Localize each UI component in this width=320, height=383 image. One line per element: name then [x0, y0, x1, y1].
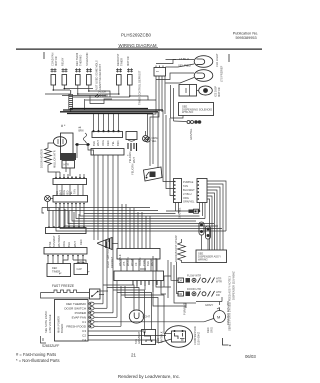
- heater box 2: [62, 161, 75, 169]
- terminal board TB1: [92, 132, 123, 138]
- svg-text:MULLION HTR: MULLION HTR: [53, 150, 57, 168]
- svg-text:SOLENOID: SOLENOID: [85, 52, 89, 66]
- strip D bottom dots: [47, 255, 84, 257]
- fast freeze lamp row: [41, 290, 90, 298]
- relay K1 coil: [51, 68, 68, 72]
- wires from band down to terminal board: [94, 114, 119, 132]
- tick right: [228, 54, 230, 62]
- band corners to the right: [148, 108, 174, 196]
- corner mark bottom right: [223, 338, 229, 345]
- fuse F1 vertical: [69, 90, 73, 112]
- right strip R connector: [197, 179, 207, 203]
- svg-text:LTS FRZ/REF: LTS FRZ/REF: [220, 65, 224, 82]
- heater rows left wires: [153, 256, 186, 306]
- svg-text:DOOR HTR: DOOR HTR: [187, 287, 201, 291]
- svg-text:JT5: JT5: [122, 261, 126, 266]
- svg-text:DEF: DEF: [52, 266, 58, 270]
- svg-text:TAN: TAN: [73, 189, 77, 194]
- svg-text:DEF THERMO: DEF THERMO: [66, 302, 86, 306]
- svg-text:BLU/WHT: BLU/WHT: [183, 188, 195, 192]
- svg-text:CAP: CAP: [77, 267, 83, 271]
- svg-text:WHT: WHT: [132, 157, 136, 163]
- svg-text:EVAP FAN: EVAP FAN: [72, 316, 86, 320]
- svg-text:YL/D: YL/D: [142, 260, 146, 266]
- door heater zigzag: [40, 147, 57, 169]
- svg-text:C4: C4: [82, 338, 86, 342]
- svg-text:BLU: BLU: [67, 242, 71, 247]
- board bottom bracket: [41, 336, 47, 343]
- svg-text:TAN/WHT: TAN/WHT: [52, 235, 56, 247]
- wires left of ice box: [171, 85, 187, 122]
- svg-text:DEF TERM: DEF TERM: [75, 53, 79, 66]
- svg-text:YEL: YEL: [111, 141, 115, 146]
- svg-text:WHT: WHT: [150, 260, 154, 266]
- buzzer: [143, 131, 149, 142]
- svg-text:# *: # *: [61, 124, 66, 128]
- svg-text:21: 21: [131, 353, 137, 358]
- lamp symbol left of strip B: [45, 196, 54, 206]
- svg-text:SEE NOTE 24VDC: SEE NOTE 24VDC: [44, 311, 48, 333]
- svg-text:115V 60HZ: 115V 60HZ: [197, 332, 201, 345]
- svg-text:COND FAN: COND FAN: [51, 52, 55, 66]
- svg-text:WHT: WHT: [96, 140, 100, 146]
- strip L wire labels: [183, 180, 195, 204]
- svg-text:RELAY: RELAY: [61, 57, 65, 66]
- relay K1 labels: [51, 52, 65, 66]
- plug P1 triangle: [98, 238, 119, 250]
- connector J1 top middle: [154, 66, 166, 77]
- interconnect A-B: [57, 185, 83, 196]
- svg-text:COMPRESSOR: COMPRESSOR: [193, 326, 197, 345]
- relay K1 contacts: [51, 75, 56, 86]
- svg-text:BLK: BLK: [146, 261, 150, 266]
- relay K3 contacts: [117, 75, 122, 86]
- svg-text:YEL/GRN: YEL/GRN: [131, 163, 135, 175]
- svg-text:MOTOR: MOTOR: [217, 87, 221, 97]
- svg-text:LT BLU: LT BLU: [179, 57, 189, 61]
- light L1 freezer: [194, 56, 213, 68]
- heater row 1: [178, 274, 222, 284]
- svg-text:5995389953: 5995389953: [235, 36, 256, 40]
- svg-text:Rendered by LeadVenture, Inc.: Rendered by LeadVenture, Inc.: [118, 374, 180, 379]
- strip bottom stubs: [176, 203, 206, 219]
- board edge connectors: [89, 302, 98, 328]
- relay K3 labels: [116, 53, 130, 66]
- wires into dispenser box: [202, 235, 209, 250]
- svg-text:0-15OK: 0-15OK: [98, 91, 107, 94]
- fuse oval 1: [199, 222, 204, 235]
- svg-text:S2653ZUFF: S2653ZUFF: [42, 344, 59, 348]
- mullion heater dark box: [60, 153, 76, 160]
- wires below M2 comb: [137, 286, 166, 294]
- svg-text:GRN/YEL: GRN/YEL: [178, 207, 182, 219]
- svg-text:WHT/BLK: WHT/BLK: [118, 254, 122, 266]
- strip B connector: [53, 196, 88, 203]
- capacitor box: [74, 262, 88, 275]
- svg-text:C3: C3: [134, 262, 138, 266]
- connector 3-pin: [187, 120, 201, 124]
- svg-text:DOOR SWITCH: DOOR SWITCH: [64, 307, 86, 311]
- M1 to M2 verticals: [121, 259, 157, 271]
- pin marks under small box: [128, 151, 136, 163]
- wires strip D to boxes: [48, 256, 86, 264]
- strip C labels below: [48, 235, 83, 247]
- compensator zigzag: [178, 239, 197, 263]
- svg-text:ORG: ORG: [62, 241, 66, 247]
- svg-text:ADAPTIVE DEFROST: ADAPTIVE DEFROST: [98, 64, 102, 90]
- svg-text:DOOR HEATER: DOOR HEATER: [40, 149, 44, 168]
- svg-text:# = Fast-moving Parts: # = Fast-moving Parts: [16, 352, 56, 357]
- svg-text:* = Non-Illustrated Parts: * = Non-Illustrated Parts: [16, 358, 60, 363]
- ice dispensing solenoid box: [179, 103, 214, 116]
- svg-text:ORG: ORG: [210, 327, 214, 333]
- svg-text:LIGHT: LIGHT: [143, 315, 151, 319]
- svg-text:BRN: BRN: [116, 140, 120, 146]
- svg-text:BOARD: BOARD: [60, 324, 64, 333]
- verticals dropping to strip C: [49, 208, 84, 228]
- strip A top wires and dots: [56, 172, 84, 179]
- mesh crossing verticals mid: [94, 168, 150, 249]
- svg-text:YEL/GRN: YEL/GRN: [128, 151, 132, 163]
- svg-text:BRN: BRN: [79, 130, 84, 132]
- relay pins hatched: [128, 143, 137, 151]
- junction wires under relays: [45, 89, 156, 101]
- svg-text:MOTOR: MOTOR: [126, 56, 130, 66]
- mid connector box M2: [114, 269, 164, 281]
- svg-text:FAST FREEZE: FAST FREEZE: [52, 284, 75, 288]
- svg-text:ORG: ORG: [101, 140, 105, 146]
- svg-text:#*: #*: [87, 270, 89, 274]
- thick wire band: [60, 109, 163, 114]
- bottom right box outline: [186, 297, 222, 308]
- TB2 pins down: [94, 155, 118, 188]
- defrost relay small box: [126, 132, 137, 142]
- svg-text:WIRING DIAGRAM: WIRING DIAGRAM: [118, 43, 156, 48]
- light switch symbol mid: [131, 163, 163, 181]
- condenser fan motor box: [61, 133, 74, 154]
- compressor ellipse: [158, 326, 193, 348]
- svg-text:TIMER: TIMER: [120, 58, 124, 66]
- TB1 pin labels: [92, 140, 120, 146]
- wire mesh nested runs: [42, 204, 226, 231]
- terminal board TB2: [91, 149, 124, 156]
- risers from board to mesh: [103, 242, 125, 326]
- svg-text:PURPLE: PURPLE: [183, 180, 194, 184]
- svg-text:OR/RD: OR/RD: [138, 258, 142, 266]
- heater row 2: [178, 287, 221, 297]
- svg-text:POWER: POWER: [75, 311, 87, 315]
- dispenser motor M1: [197, 86, 213, 95]
- svg-text:C2: C2: [82, 334, 86, 338]
- relay K2 coil: [75, 68, 92, 72]
- fuse oval 2: [206, 226, 211, 239]
- strip A connector: [53, 179, 87, 185]
- svg-text:RED: RED: [206, 327, 210, 333]
- node tick top-left: [43, 52, 45, 59]
- auger motor box: [179, 85, 197, 97]
- strip C connector: [46, 228, 87, 234]
- svg-text:CLR LIGHT: CLR LIGHT: [215, 53, 219, 67]
- main control board: [55, 300, 89, 343]
- svg-text:▪▪▪: ▪▪▪: [156, 71, 159, 74]
- svg-text:DR: DR: [179, 279, 183, 283]
- svg-text:ORG: ORG: [183, 196, 189, 200]
- svg-text:PLHS269ZCB0: PLHS269ZCB0: [121, 33, 152, 38]
- svg-text:LIGHT SWITCH: LIGHT SWITCH: [106, 249, 110, 268]
- svg-text:06/03: 06/03: [245, 354, 256, 359]
- strip A labels below: [55, 189, 77, 196]
- splice loop and labels right of fuse: [62, 91, 112, 110]
- svg-text:REF/FRZ: REF/FRZ: [110, 257, 114, 268]
- header rule: [16, 48, 262, 50]
- svg-text:MAIN POWER: MAIN POWER: [57, 316, 61, 333]
- svg-text:GRN/YEL: GRN/YEL: [183, 200, 195, 204]
- fast freeze relay stubs: [99, 291, 108, 295]
- svg-text:#4: #4: [79, 128, 82, 130]
- svg-text:TAN: TAN: [183, 184, 188, 188]
- svg-text:WTR: WTR: [216, 280, 222, 284]
- svg-text:DISPENSER 115V 60HZ: DISPENSER 115V 60HZ: [232, 271, 236, 300]
- svg-text:WIRING: WIRING: [198, 258, 208, 262]
- svg-text:WTR /NO: WTR /NO: [182, 110, 193, 114]
- pigtail splice: [75, 128, 94, 159]
- svg-text:ICE DISP: ICE DISP: [214, 86, 218, 97]
- fresh food light: [129, 308, 150, 323]
- svg-text:DR: DR: [179, 292, 183, 296]
- svg-text:#*: #*: [59, 272, 61, 276]
- fan-out wires from strip R: [207, 181, 226, 250]
- svg-text:Publication No.: Publication No.: [233, 32, 259, 36]
- junction dots: [53, 88, 131, 97]
- defrost thermostat switch box: [134, 330, 156, 345]
- condenser fan motor ellipse: [53, 137, 66, 147]
- svg-text:THERMO: THERMO: [79, 55, 83, 66]
- light L2 fresh food: [194, 70, 213, 82]
- inline connector blob: [189, 209, 199, 213]
- svg-text:GRN/YEL: GRN/YEL: [189, 128, 193, 140]
- svg-text:C3: C3: [82, 329, 86, 333]
- crossing wire y211: [166, 210, 200, 212]
- svg-text:M: M: [217, 315, 220, 320]
- svg-text:GRN/WHT: GRN/WHT: [137, 331, 141, 344]
- wires from J1 down: [156, 76, 165, 114]
- svg-text:FLOW WTR: FLOW WTR: [187, 274, 201, 278]
- wires to lights: [156, 60, 194, 84]
- svg-text:BLK: BLK: [92, 141, 96, 146]
- svg-text:GRN/Y: GRN/Y: [205, 303, 213, 307]
- svg-text:YEL: YEL: [152, 139, 157, 143]
- svg-text:C1: C1: [82, 320, 86, 324]
- strip D connector: [44, 248, 87, 255]
- timer box: [47, 264, 71, 277]
- svg-text:LT BLU: LT BLU: [183, 192, 192, 196]
- svg-text:DOOR BOOST STRAP: DOOR BOOST STRAP: [174, 235, 178, 262]
- strip C top dots: [48, 226, 85, 228]
- svg-text:LOW VOLTAGE: LOW VOLTAGE: [48, 314, 52, 333]
- svg-text:DEFROST: DEFROST: [116, 53, 120, 66]
- relay K3 coil: [116, 68, 133, 72]
- evap fan motor: [204, 302, 226, 323]
- svg-text:DR: DR: [216, 293, 220, 297]
- svg-text:MOTOR: MOTOR: [54, 56, 58, 66]
- relay K2 labels: [75, 52, 89, 66]
- board output wires: [88, 304, 204, 343]
- svg-text:WHT/RED: WHT/RED: [57, 235, 61, 247]
- relay K2 contacts: [76, 75, 81, 86]
- mid connector box M1: [117, 249, 160, 267]
- svg-text:WHT: WHT: [73, 241, 77, 247]
- svg-text:PNK: PNK: [48, 241, 52, 247]
- strip B bottom dots: [55, 203, 85, 205]
- svg-text:RED: RED: [79, 239, 83, 245]
- ground G1: [145, 136, 158, 143]
- svg-text:FREEZER FAN MTR: FREEZER FAN MTR: [226, 301, 230, 325]
- right strip L connector: [174, 179, 182, 203]
- svg-text:RED: RED: [106, 140, 110, 146]
- fast freeze relay box: [90, 289, 101, 299]
- svg-text:WGM: WGM: [130, 259, 134, 266]
- nested L wires to bottom components: [103, 285, 164, 343]
- svg-text:NOT USED SOME MDLS: NOT USED SOME MDLS: [95, 60, 99, 90]
- M2 comb pins below: [133, 281, 161, 287]
- svg-text:WH/OR: WH/OR: [126, 257, 130, 266]
- dispenser assy box: [196, 250, 227, 263]
- wires left column connect: [48, 143, 70, 176]
- svg-text:FRESH FOOD: FRESH FOOD: [66, 325, 87, 329]
- svg-text:0-15OK: 0-15OK: [100, 94, 109, 97]
